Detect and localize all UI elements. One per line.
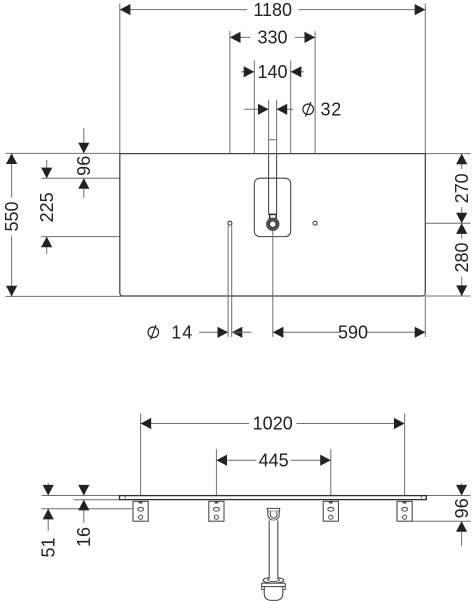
trap collar ear left	[262, 587, 265, 590]
dimension 330	[230, 28, 315, 48]
dimension 140 extension line left	[253, 61, 255, 179]
dimension 550 extension top	[6, 152, 120, 154]
slot lines inside console	[268, 154, 270, 215]
dimension 1020 extension left	[140, 414, 142, 496]
faucet centerline down	[272, 231, 274, 338]
svg-text:96: 96	[74, 156, 94, 176]
svg-text:51: 51	[39, 537, 59, 557]
dimension 1020 extension right	[404, 414, 406, 496]
drain outlet bar	[267, 508, 280, 511]
svg-text:96: 96	[452, 498, 472, 518]
dimension 330 extension line left	[229, 31, 231, 221]
dimension 550	[2, 153, 22, 296]
bracket 3	[323, 501, 338, 521]
svg-text:590: 590	[338, 323, 368, 343]
dimension 270/280 extension top	[425, 153, 470, 155]
dimension 280	[452, 223, 472, 296]
dimension O14	[148, 323, 252, 343]
dimension 270	[452, 154, 472, 224]
dimension 270/280 extension bottom	[425, 295, 470, 297]
svg-text:550: 550	[2, 201, 22, 231]
faucet hole ring	[267, 218, 279, 230]
dimension 51 extension top	[42, 495, 120, 497]
faucet slot line right above console	[276, 100, 278, 154]
svg-text:225: 225	[37, 192, 57, 222]
dimension 1020	[141, 414, 405, 434]
dimension 96b extension top	[426, 495, 470, 497]
console slab front view	[120, 496, 427, 500]
dimension O32	[244, 100, 342, 120]
O14 hole extension left	[227, 225, 229, 337]
dimension 445 extension right	[330, 449, 332, 495]
trap collar band	[262, 583, 286, 586]
dimension 96	[74, 128, 94, 198]
drain outlet outer U	[268, 511, 279, 520]
dimension 96b extension bottom	[412, 520, 470, 522]
dimension 16 extension bottom	[74, 499, 120, 501]
svg-text:1020: 1020	[253, 414, 293, 434]
trap collar ear right	[283, 587, 286, 590]
faucet slot line left above console	[268, 100, 270, 154]
svg-text:445: 445	[259, 450, 289, 470]
dimension 1180 extension line left	[119, 4, 121, 154]
dimension 590	[273, 323, 426, 343]
dimension 445	[216, 450, 330, 470]
dimension 330 extension line right	[314, 31, 316, 221]
svg-text:270: 270	[452, 173, 472, 203]
bracket 4	[397, 501, 412, 521]
dimension 140	[241, 62, 304, 82]
hole left O14	[228, 221, 232, 225]
drain pipe	[269, 520, 278, 579]
trap rim front arc	[263, 580, 284, 583]
bracket 1	[133, 501, 148, 521]
svg-text:280: 280	[452, 242, 472, 272]
dimension 96b	[452, 483, 472, 546]
hole right	[313, 221, 317, 225]
bracket 2	[209, 501, 224, 521]
dimension 51	[39, 483, 59, 558]
svg-text:330: 330	[257, 28, 287, 48]
O14 hole extension right	[231, 225, 233, 337]
waste hole tab	[270, 214, 277, 219]
dimension 590 extension right	[424, 296, 426, 337]
dimension 140 extension line right	[290, 61, 292, 179]
dimension 16	[74, 485, 94, 547]
trap rim ellipse	[263, 577, 284, 583]
dimension 51 extension bottom	[42, 508, 138, 510]
slab end tick left	[124, 496, 126, 499]
dimension 225	[37, 160, 57, 254]
slab end tick right	[420, 496, 422, 499]
dimension 550 extension bottom	[6, 295, 122, 297]
basin area rounded rect	[254, 178, 290, 236]
drain outlet inner U	[270, 511, 277, 518]
console top view outline	[120, 154, 426, 296]
dimension 445 extension left	[215, 449, 217, 495]
dimension 225 extension bottom	[42, 236, 261, 238]
svg-text:32: 32	[321, 100, 343, 120]
svg-text:140: 140	[257, 62, 287, 82]
dimension 270/280 extension middle	[317, 222, 471, 224]
svg-text:14: 14	[171, 323, 193, 343]
svg-text:16: 16	[74, 527, 94, 547]
svg-text:1180: 1180	[253, 0, 292, 20]
trap cup	[264, 587, 283, 601]
dimension 1180	[120, 0, 426, 20]
dimension 225 extension top (to basin)	[42, 177, 255, 179]
dimension 1180 extension line right	[424, 4, 426, 154]
faucet slot end tick	[269, 139, 277, 141]
trap rim inner ellipse	[268, 578, 280, 581]
